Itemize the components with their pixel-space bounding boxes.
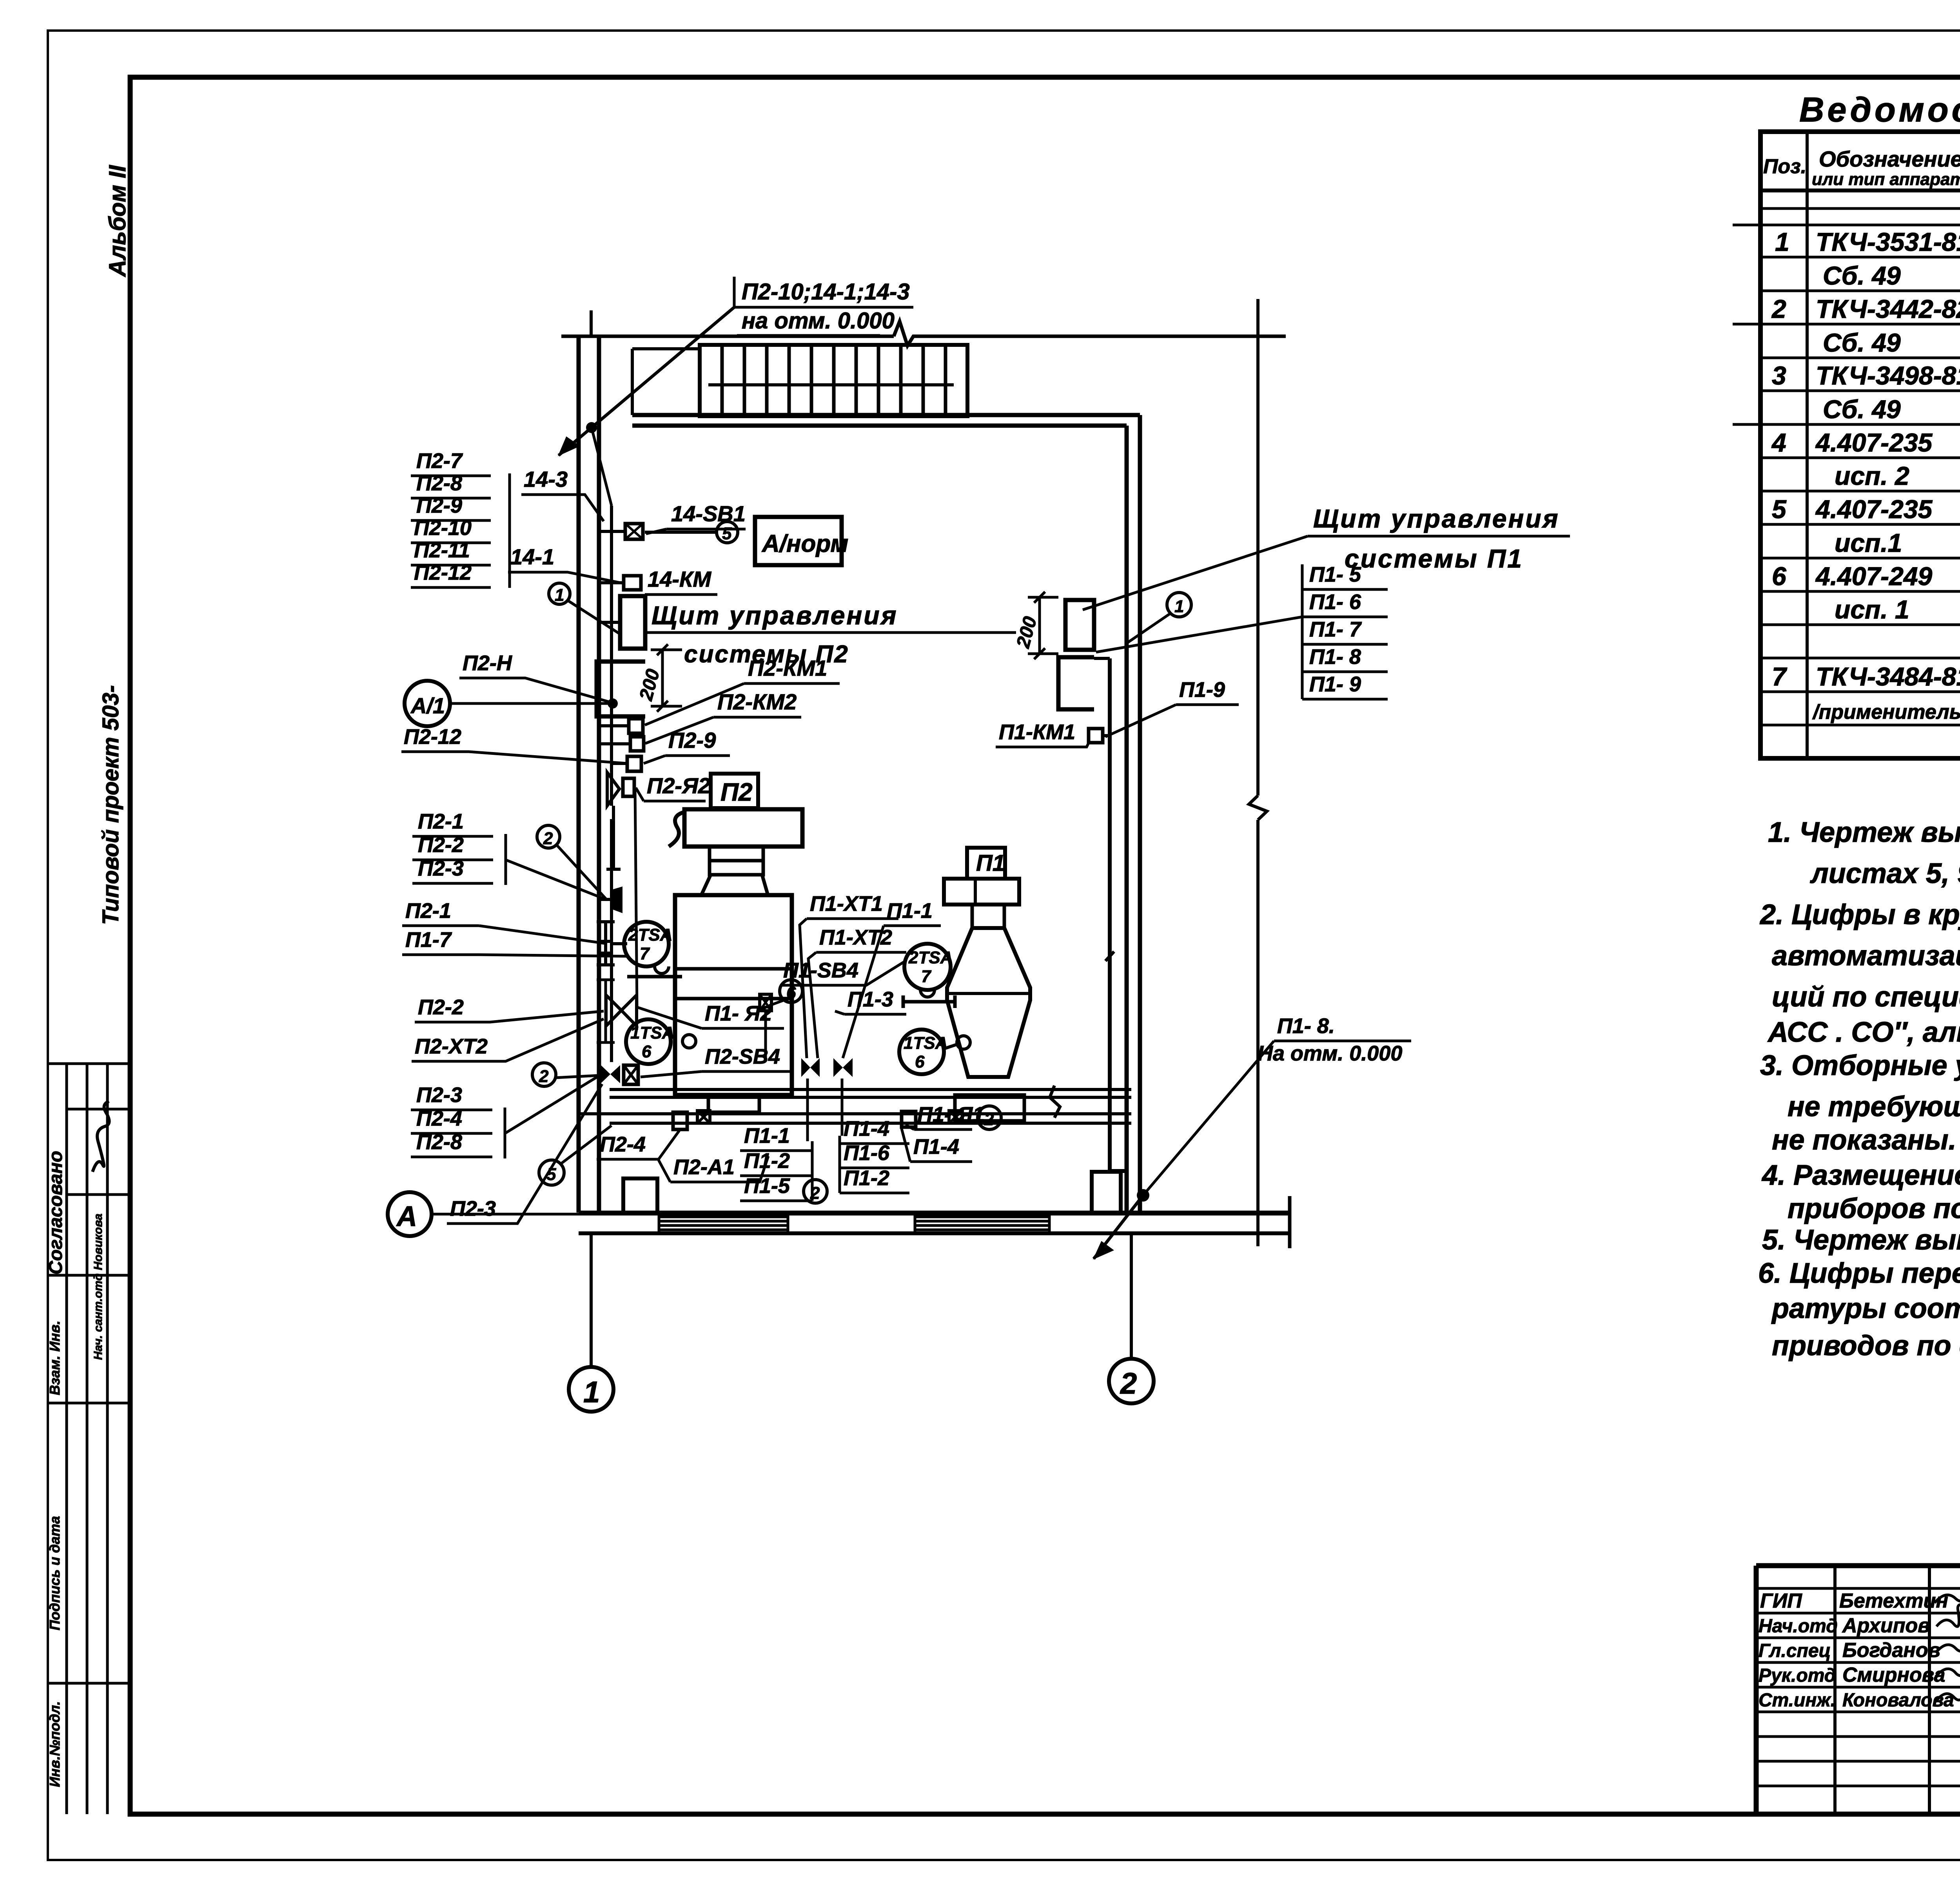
svg-text:П1- 6: П1- 6 bbox=[1309, 590, 1361, 614]
side stamp row dividers bbox=[48, 1062, 130, 1065]
svg-text:не требующих прокладки пр: не требующих прокладки проводок, в плане bbox=[1788, 1091, 1960, 1122]
wall niche below cabinet P2 bbox=[597, 662, 645, 716]
axis bubble A bbox=[388, 1192, 432, 1236]
left exterior wall (double line) bbox=[579, 336, 599, 1213]
svg-text:3. Отборные устройства мес: 3. Отборные устройства местных приборов, bbox=[1760, 1050, 1960, 1081]
svg-text:П2-А1: П2-А1 bbox=[673, 1155, 735, 1179]
svg-text:Поз.: Поз. bbox=[1763, 155, 1806, 178]
control cabinet P2 bbox=[599, 596, 645, 649]
svg-text:ТКЧ-3531-81: ТКЧ-3531-81 bbox=[1816, 227, 1960, 256]
svg-text:П1- 8: П1- 8 bbox=[1309, 645, 1361, 669]
P2 foot bbox=[708, 1095, 759, 1112]
svg-text:П1- Я2: П1- Я2 bbox=[705, 1002, 772, 1025]
svg-text:1. Чертеж выполнен на: 1. Чертеж выполнен на основании схем на bbox=[1768, 817, 1960, 848]
svg-text:П2-ХТ2: П2-ХТ2 bbox=[415, 1035, 488, 1058]
svg-text:4.407-249: 4.407-249 bbox=[1815, 562, 1933, 591]
svg-text:П1- 7: П1- 7 bbox=[1309, 618, 1362, 641]
sensor flag P2-XT1 (solid) bbox=[612, 886, 622, 913]
axis bubble 2 bbox=[1109, 1359, 1154, 1403]
window hatch band right bbox=[915, 1213, 1049, 1233]
svg-text:П2-Я2: П2-Я2 bbox=[647, 773, 710, 798]
position bubble 2 below duct bbox=[804, 1180, 827, 1203]
duct dampers between P2 and P1 (solid) bbox=[801, 1058, 820, 1077]
connection box P2-KM1 bbox=[599, 719, 643, 733]
svg-text:Обозначение: Обозначение bbox=[1819, 147, 1960, 171]
svg-text:Сб. 49: Сб. 49 bbox=[1823, 261, 1901, 290]
svg-text:П1- 8.: П1- 8. bbox=[1277, 1014, 1335, 1038]
svg-text:П2-1: П2-1 bbox=[405, 899, 451, 923]
svg-text:П1- Я1: П1- Я1 bbox=[917, 1103, 984, 1126]
svg-text:Сб. 49: Сб. 49 bbox=[1823, 395, 1901, 424]
svg-text:приводов по схеме принцип: приводов по схеме принципиальной в разде… bbox=[1772, 1330, 1960, 1361]
svg-text:А: А bbox=[396, 1201, 417, 1232]
svg-text:5: 5 bbox=[722, 524, 732, 543]
svg-text:6: 6 bbox=[1772, 562, 1787, 591]
grid line 1 below wall bbox=[590, 1233, 593, 1367]
dimension 200 at cabinet P2 bbox=[651, 644, 682, 712]
svg-text:Типовой проект 503-: Типовой проект 503- bbox=[98, 685, 123, 925]
svg-text:2. Цифры в кружках у пр: 2. Цифры в кружках у приборов и средств bbox=[1759, 899, 1960, 930]
P1 base bbox=[955, 1095, 1024, 1121]
hourglass box at wall bottom bbox=[624, 1065, 638, 1084]
svg-text:исп. 2: исп. 2 bbox=[1835, 461, 1909, 490]
notes paragraph bbox=[1758, 817, 1960, 1361]
svg-text:ТКЧ-3498-81: ТКЧ-3498-81 bbox=[1816, 361, 1960, 390]
svg-text:П1- 9: П1- 9 bbox=[1309, 673, 1361, 696]
svg-text:Инв.№подл.: Инв.№подл. bbox=[47, 1701, 63, 1787]
svg-text:П2-Н: П2-Н bbox=[463, 651, 512, 675]
svg-text:П1-9: П1-9 bbox=[1179, 678, 1225, 702]
P2 top casing with curl bbox=[684, 809, 802, 847]
position bubble 5 lower-left bbox=[539, 1126, 612, 1185]
svg-text:2: 2 bbox=[1771, 294, 1786, 323]
svg-text:2: 2 bbox=[1120, 1367, 1137, 1400]
svg-text:Щит управления: Щит управления bbox=[1313, 504, 1559, 533]
label stack P2-3 P2-4 P2-8 bbox=[416, 1083, 462, 1154]
svg-text:7: 7 bbox=[1772, 662, 1788, 691]
niche on bottom wall bbox=[623, 1178, 657, 1213]
svg-text:П1: П1 bbox=[976, 850, 1005, 876]
margin signature squiggle bbox=[93, 1101, 109, 1172]
svg-text:1: 1 bbox=[583, 1376, 600, 1409]
svg-text:Согласовано: Согласовано bbox=[45, 1151, 66, 1274]
bottom wall end ticks bbox=[1288, 1196, 1292, 1248]
P2 main body bbox=[675, 895, 792, 1095]
svg-text:Гл.спец: Гл.спец bbox=[1759, 1641, 1831, 1661]
svg-text:ратуры соответствуют номе: ратуры соответствуют номерам электро- bbox=[1771, 1293, 1960, 1324]
svg-text:П2-1: П2-1 bbox=[418, 810, 464, 833]
interior top wall (double line) bbox=[632, 415, 1140, 426]
stair grid outline bbox=[700, 345, 967, 416]
label stack P2-1 / P1-7 bbox=[405, 899, 452, 952]
svg-text:автоматизации соответствуют: автоматизации соответствуют номерам пози… bbox=[1772, 940, 1960, 972]
damper drive at wall bottom (solid bowtie) bbox=[601, 1065, 620, 1083]
conduit line along left wall bbox=[610, 506, 613, 1062]
instrument circle 1TSA-6 right bbox=[899, 1030, 970, 1074]
svg-text:200: 200 bbox=[1013, 614, 1041, 650]
supply unit P1: label box bbox=[944, 848, 1030, 1121]
svg-text:Щит управления: Щит управления bbox=[652, 601, 898, 630]
svg-text:П1-4: П1-4 bbox=[844, 1117, 889, 1140]
axis 1 stub above wall bbox=[590, 310, 593, 336]
svg-text:П1-1: П1-1 bbox=[744, 1124, 790, 1148]
svg-text:4.407-235: 4.407-235 bbox=[1815, 428, 1933, 457]
label stack P1-4 P1-6 P1-2 bbox=[844, 1117, 890, 1190]
svg-text:П1-ХТ2: П1-ХТ2 bbox=[819, 926, 892, 949]
valve with actuator P2-Ya2 bbox=[606, 772, 634, 869]
svg-text:2: 2 bbox=[539, 1067, 549, 1086]
position bubble 1 at cabinet P1 bbox=[1127, 593, 1191, 643]
svg-text:Ведомость комплектных узлов: Ведомость комплектных узлов bbox=[1799, 90, 1960, 129]
position bubble 2 mid-left bbox=[537, 825, 607, 900]
connection box P1-KM1 bbox=[1089, 729, 1110, 743]
svg-text:2TSA: 2TSA bbox=[628, 925, 672, 944]
svg-text:Альбом II: Альбом II bbox=[104, 165, 131, 277]
P1 neck bbox=[972, 905, 1004, 928]
duct break symbol bbox=[1050, 1086, 1060, 1118]
table data rows bbox=[1771, 227, 1960, 724]
left margin column lines of side stamp bbox=[65, 1064, 68, 1814]
svg-text:3: 3 bbox=[1772, 361, 1786, 390]
svg-text:Взам. Инв.: Взам. Инв. bbox=[47, 1321, 63, 1395]
svg-text:исп. 1: исп. 1 bbox=[1835, 595, 1909, 624]
svg-text:П1-2: П1-2 bbox=[744, 1149, 790, 1173]
svg-text:1: 1 bbox=[555, 586, 564, 605]
shutoff valve P2-XT2 (bowtie) bbox=[597, 980, 637, 1042]
mode plate A/norm bbox=[755, 517, 842, 565]
svg-text:П1-4: П1-4 bbox=[913, 1135, 959, 1158]
bottom exterior wall (double line) bbox=[579, 1213, 1290, 1233]
svg-text:или тип аппарата: или тип аппарата bbox=[1812, 170, 1960, 189]
svg-text:не показаны.: не показаны. bbox=[1772, 1124, 1956, 1156]
main title block grid bbox=[1756, 1566, 1960, 1814]
stair grid bars bbox=[722, 345, 946, 416]
svg-text:П1-3: П1-3 bbox=[848, 988, 893, 1011]
position bubble 2 lower-left bbox=[532, 1063, 600, 1086]
svg-text:П2-КМ2: П2-КМ2 bbox=[717, 689, 797, 714]
svg-text:П1-1: П1-1 bbox=[887, 899, 933, 923]
svg-text:Рук.отд: Рук.отд bbox=[1759, 1665, 1836, 1686]
svg-text:П1-ХТ1: П1-ХТ1 bbox=[810, 892, 883, 915]
P1 body bbox=[947, 928, 1030, 1077]
svg-text:ций по спецификации обор: ций по спецификации оборудования bbox=[1772, 981, 1960, 1013]
thermometer pocket on wall (upper) bbox=[597, 922, 627, 965]
label stack P1-1 P1-2 P1-5 bbox=[744, 1124, 790, 1198]
position bubble 1 at cabinet P2 bbox=[549, 583, 620, 634]
svg-text:Сб. 49: Сб. 49 bbox=[1823, 328, 1901, 357]
svg-text:исп.1: исп.1 bbox=[1835, 528, 1902, 557]
table header texts bbox=[1763, 147, 1960, 189]
control cabinet P1 on right wall bbox=[1065, 600, 1094, 650]
svg-text:на отм. 0.000: на отм. 0.000 bbox=[742, 308, 895, 334]
supply unit P2: label box bbox=[669, 774, 802, 1112]
svg-text:1: 1 bbox=[1775, 227, 1789, 256]
svg-text:5. Чертеж выполнен для двух: 5. Чертеж выполнен для двух вариантов. bbox=[1762, 1224, 1960, 1256]
svg-text:АСС . СО″, альбом IV.: АСС . СО″, альбом IV. bbox=[1767, 1017, 1960, 1048]
label stack P1-5..P1-9 bbox=[1309, 563, 1362, 696]
inner ledge left of stair bbox=[632, 349, 700, 415]
top exterior wall line with break bbox=[561, 321, 1286, 346]
junction dot on leader bbox=[1137, 1189, 1149, 1202]
svg-text:ТКЧ-3484-81: ТКЧ-3484-81 bbox=[1816, 662, 1960, 691]
svg-text:П2-КМ1: П2-КМ1 bbox=[748, 656, 827, 680]
wall niche below cabinet P1 bbox=[1058, 657, 1094, 709]
stair middle rail bbox=[708, 383, 954, 386]
svg-text:/применительно/: /применительно/ bbox=[1812, 701, 1960, 723]
svg-text:2TSA: 2TSA bbox=[908, 948, 953, 967]
svg-text:1TSA: 1TSA bbox=[904, 1033, 947, 1053]
instrument circle 2TSA-7 left bbox=[624, 922, 682, 977]
svg-text:П2-9: П2-9 bbox=[668, 728, 716, 752]
position bubble 5 upper bbox=[717, 522, 738, 543]
label stack P2-1..P2-3 bbox=[418, 810, 464, 880]
svg-text:А/норм: А/норм bbox=[761, 530, 848, 557]
svg-text:Архипов: Архипов bbox=[1842, 1614, 1930, 1637]
axis bubble 1 bbox=[569, 1367, 613, 1412]
svg-text:приборов показано на чертеж: приборов показано на чертежах марки ОВ. bbox=[1788, 1193, 1960, 1224]
svg-text:П2-2: П2-2 bbox=[418, 995, 464, 1019]
svg-text:1: 1 bbox=[1174, 597, 1184, 616]
svg-text:4: 4 bbox=[1771, 428, 1786, 457]
svg-text:П1-КМ1: П1-КМ1 bbox=[999, 720, 1075, 744]
svg-text:6. Цифры перед обозначениям: 6. Цифры перед обозначениями кабелей, эл… bbox=[1758, 1258, 1960, 1289]
P2 neck bbox=[710, 847, 763, 861]
instrument circle 1TSA-6 left bbox=[626, 1019, 696, 1064]
svg-text:Нач. сант.отд Новикова: Нач. сант.отд Новикова bbox=[92, 1214, 105, 1360]
grid line 2 below wall bbox=[1130, 1233, 1133, 1359]
junction dot on A/1 axis bbox=[608, 698, 618, 709]
svg-text:П1-5: П1-5 bbox=[744, 1174, 790, 1198]
svg-text:системы П1: системы П1 bbox=[1345, 544, 1523, 573]
svg-text:14-SB1: 14-SB1 bbox=[671, 501, 746, 526]
lower duct run bbox=[579, 1086, 1131, 1123]
svg-text:Ст.инж.: Ст.инж. bbox=[1759, 1690, 1836, 1711]
pushbutton 14-KM on wall bbox=[599, 576, 641, 590]
svg-text:На отм. 0.000: На отм. 0.000 bbox=[1258, 1042, 1402, 1065]
signature squiggles bbox=[1935, 1585, 1960, 1702]
svg-text:5: 5 bbox=[1772, 495, 1787, 524]
svg-text:А/1: А/1 bbox=[410, 693, 445, 718]
svg-text:ГИП: ГИП bbox=[1760, 1590, 1802, 1612]
position bubble 2 at duct right bbox=[978, 1106, 1001, 1129]
label stack P2-7..P2-12 bbox=[414, 449, 472, 584]
instrument circle 2TSA-7 right bbox=[902, 944, 956, 1008]
svg-text:7: 7 bbox=[640, 944, 650, 963]
pilaster on right wall at bottom bbox=[1092, 1172, 1121, 1213]
svg-text:ТКЧ-3442-82: ТКЧ-3442-82 bbox=[1816, 294, 1960, 323]
svg-text:П2-12: П2-12 bbox=[404, 725, 461, 749]
svg-text:П2-4: П2-4 bbox=[600, 1133, 646, 1156]
position bubble 6 middle bbox=[769, 980, 802, 1006]
dimension 200 at cabinet P1 bbox=[1028, 592, 1058, 659]
svg-text:200: 200 bbox=[635, 667, 664, 703]
svg-text:14-КМ: 14-КМ bbox=[648, 567, 711, 591]
svg-text:14-1: 14-1 bbox=[510, 544, 554, 569]
connection box P2-KM2 bbox=[599, 737, 644, 751]
svg-text:листах 5, 9.: листах 5, 9. bbox=[1810, 858, 1960, 889]
svg-text:Смирнова: Смирнова bbox=[1842, 1664, 1945, 1686]
svg-text:Богданов: Богданов bbox=[1842, 1639, 1940, 1662]
svg-text:4.407-235: 4.407-235 bbox=[1815, 495, 1933, 524]
svg-text:П2-3: П2-3 bbox=[450, 1197, 496, 1220]
svg-text:П1-7: П1-7 bbox=[405, 928, 452, 952]
window hatch band left bbox=[659, 1213, 788, 1233]
title block signature column texts bbox=[1759, 1590, 1960, 1711]
units list table grid bbox=[1733, 132, 1960, 758]
svg-text:Бетехтин: Бетехтин bbox=[1839, 1590, 1948, 1612]
P2 funnel bbox=[701, 875, 768, 895]
svg-text:Подпись и дата: Подпись и дата bbox=[47, 1516, 63, 1630]
switch box 14-SB1 on wall bbox=[599, 524, 717, 539]
svg-text:П1-SB4: П1-SB4 bbox=[783, 959, 858, 982]
svg-text:4. Размещение отборных: 4. Размещение отборных устройств, первич… bbox=[1761, 1160, 1960, 1191]
svg-text:Нач.отд: Нач.отд bbox=[1759, 1616, 1838, 1637]
P1 flange bbox=[944, 879, 1019, 905]
right interior wall (double line) bbox=[1127, 415, 1140, 1213]
conduit on right wall bbox=[1094, 658, 1127, 1171]
svg-text:П1-2: П1-2 bbox=[844, 1166, 889, 1190]
junction dot top of wall bbox=[586, 422, 597, 433]
hourglass box P1-SB4 bbox=[760, 994, 771, 1058]
svg-text:П2-SB4: П2-SB4 bbox=[705, 1045, 780, 1068]
right break line (building continues) bbox=[1249, 299, 1267, 1246]
axis bubble A/1 bbox=[405, 681, 612, 726]
svg-text:2: 2 bbox=[543, 829, 553, 848]
svg-text:7: 7 bbox=[921, 967, 932, 986]
svg-text:П2-10;14-1;14-3: П2-10;14-1;14-3 bbox=[742, 279, 910, 305]
axis A line bbox=[432, 1213, 1290, 1216]
svg-text:14-3: 14-3 bbox=[524, 467, 568, 491]
duct fitting boxes below bbox=[673, 1111, 962, 1129]
junction box P2-9 bbox=[612, 756, 641, 771]
svg-text:П2-7: П2-7 bbox=[416, 449, 463, 473]
svg-text:П1- 5: П1- 5 bbox=[1309, 563, 1361, 586]
svg-text:П2: П2 bbox=[720, 778, 753, 806]
svg-text:2: 2 bbox=[984, 1110, 994, 1129]
svg-text:П2-3: П2-3 bbox=[416, 1083, 462, 1107]
svg-text:6: 6 bbox=[915, 1052, 925, 1071]
svg-text:6: 6 bbox=[642, 1042, 652, 1061]
